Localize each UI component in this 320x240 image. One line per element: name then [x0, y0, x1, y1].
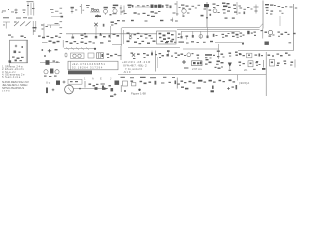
rectifier V7 — [265, 4, 276, 15]
bleeder lead — [279, 16, 281, 26]
parts list block2 r1 — [2, 80, 29, 84]
power transformer T6 — [97, 53, 104, 59]
text values row — [181, 41, 213, 44]
svg-text:A: A — [92, 77, 94, 81]
tube V3 shield — [151, 5, 164, 8]
cap C17 — [229, 53, 232, 57]
bias resistor — [205, 54, 215, 56]
tone cap — [175, 53, 180, 59]
coil L1 — [90, 8, 100, 12]
parts list block2 r4 — [2, 90, 10, 93]
mixer components — [127, 33, 143, 40]
B+ feed wire — [215, 42, 242, 44]
power bus wire — [262, 1, 264, 29]
parts list block2 r2 — [2, 83, 28, 87]
meter M1 — [205, 57, 212, 64]
bottom row right1 — [181, 80, 236, 84]
band switch row — [38, 36, 61, 39]
IF can T4 — [121, 28, 123, 46]
capacitor C2 — [71, 7, 78, 14]
resistor R16 — [151, 51, 157, 56]
notes text block r4 — [123, 70, 131, 74]
box K1 — [88, 53, 94, 58]
coupling network — [213, 4, 220, 14]
terminal id row — [121, 77, 176, 78]
cap C16 — [159, 53, 164, 58]
primary winding — [15, 45, 23, 48]
IF components lower — [131, 53, 149, 60]
resistor network R4 — [121, 12, 150, 17]
output tube V9 — [239, 54, 245, 57]
resistor R14 — [65, 53, 67, 58]
resistor R3 — [86, 5, 90, 8]
caption — [131, 91, 146, 95]
ground — [95, 14, 101, 17]
AF bus — [183, 44, 219, 59]
wire — [135, 5, 150, 7]
lever Z — [46, 88, 54, 94]
voice coil wire — [74, 87, 109, 90]
capacitor C5 — [173, 13, 179, 15]
oscillator can box — [157, 31, 177, 44]
label text rows — [72, 62, 105, 66]
mixer crossover — [94, 23, 98, 34]
svg-text:[-93-5] A: [-93-5] A — [239, 81, 249, 85]
junction — [110, 14, 112, 15]
capacitor C8 — [103, 24, 105, 27]
pilot lamp circuit — [40, 60, 60, 65]
terminal strip J1 labels — [2, 9, 15, 14]
notes text block r3 — [125, 67, 142, 71]
rectifier stack — [216, 61, 224, 65]
dash row — [184, 67, 223, 72]
wire — [80, 4, 84, 14]
parts list row1 — [2, 64, 23, 68]
terminal ticks — [60, 8, 63, 14]
coupling — [217, 51, 225, 58]
solder lugs — [3, 17, 32, 18]
filter caps — [278, 6, 288, 14]
wire — [112, 44, 122, 46]
phase cross — [182, 60, 186, 64]
antenna input — [3, 22, 10, 29]
svg-text:5 2 . 1 8 2 6 4 . 3 1 7 2 9 4: 5 2 . 1 8 2 6 4 . 3 1 7 2 9 4 — [72, 66, 103, 70]
parts list block2 r3 — [2, 86, 24, 90]
screen resistor R9 — [181, 31, 183, 38]
resistor R8 — [109, 34, 120, 39]
B+ bus line 3 — [181, 30, 240, 32]
resistor R11 — [207, 27, 209, 38]
junction dots — [183, 14, 212, 17]
AF plate wire — [128, 47, 180, 49]
first AF stage — [63, 40, 78, 48]
capacitor C4 — [166, 5, 172, 9]
choke L2 — [151, 11, 161, 17]
resistor R13 — [81, 41, 95, 44]
tone control — [42, 41, 60, 44]
output comps — [268, 53, 291, 57]
pin 1 — [84, 81, 86, 88]
bottom panel wire — [118, 74, 266, 76]
relay box — [192, 61, 203, 66]
component row bottom — [123, 81, 180, 92]
resistor R17 — [167, 50, 174, 56]
transformer terminals — [12, 57, 24, 62]
value row right — [244, 68, 265, 72]
terminal ticks — [60, 21, 63, 34]
volume control R12 — [222, 33, 230, 38]
capacitor C3 — [128, 5, 134, 8]
cathode resistor R6 — [72, 34, 75, 39]
wire — [47, 23, 60, 28]
output bus — [238, 49, 294, 51]
svg-text:c s e-a: c s e-a — [2, 90, 10, 93]
diode D1 — [228, 63, 232, 71]
detector row — [240, 7, 253, 14]
svg-text:+9.2 - 4 7 2 1 0 4 6 3 8 5 1: +9.2 - 4 7 2 1 0 4 6 3 8 5 1 — [72, 62, 105, 66]
left edge pin — [176, 78, 178, 89]
chart footnote — [84, 77, 112, 81]
oscillator coil L3 — [41, 24, 48, 39]
dial lamp — [8, 35, 26, 39]
svg-text:2.67 cm.: 2.67 cm. — [192, 67, 203, 71]
tube V6 — [222, 3, 231, 14]
dial mechanism — [44, 69, 59, 78]
resistor R5 — [192, 5, 201, 9]
electrolytic C13 — [278, 32, 296, 37]
oscillator V8 — [110, 20, 120, 34]
connector box — [68, 79, 82, 84]
field coil wire — [265, 52, 267, 96]
cap C14 — [100, 41, 111, 44]
transformer bottom lead — [9, 60, 12, 66]
capacitor C10 — [145, 34, 153, 39]
wire — [175, 1, 181, 16]
B+ dropping resistors — [225, 18, 235, 19]
resistor R1 — [15, 9, 18, 15]
decoupling C11 — [186, 36, 189, 40]
contact row — [89, 84, 105, 87]
neon mark — [242, 42, 291, 45]
transformer T1 — [27, 1, 35, 15]
bottom connector strip — [115, 81, 127, 93]
heater sawtooth — [64, 47, 96, 50]
svg-text:U c: U c — [46, 81, 51, 85]
cap C12 — [213, 34, 218, 37]
plug P1 — [102, 85, 116, 97]
cross X2 — [63, 81, 66, 84]
capacitor C1 — [23, 10, 26, 13]
tube V1 — [104, 7, 108, 15]
junction dot — [84, 33, 101, 35]
tube V2 — [113, 5, 119, 15]
B+ bus line 2 — [177, 28, 260, 30]
bypass capacitor C9 — [81, 35, 88, 40]
speaker SP1 — [65, 85, 74, 94]
bus corner — [260, 24, 264, 28]
svg-text:XY% 48 7. -90L- 2: XY% 48 7. -90L- 2 — [123, 64, 147, 68]
resistor R15 — [107, 54, 113, 59]
padder trimmer — [178, 34, 181, 39]
AF grid comps — [181, 53, 200, 59]
svg-text:E: E — [100, 77, 102, 81]
transformer T3 — [233, 2, 241, 15]
resistor R7 — [95, 34, 106, 39]
secondary winding — [14, 51, 21, 54]
switch S1 — [41, 49, 57, 57]
rectifier cathode — [247, 31, 256, 36]
svg-text:-N 1 9: -N 1 9 — [123, 70, 131, 74]
terminal row right — [239, 60, 296, 68]
wire stub — [237, 75, 239, 81]
bottom row right2 — [181, 85, 237, 92]
resistor R18 — [235, 52, 241, 56]
shaft line — [120, 46, 122, 60]
tube V5 — [204, 2, 212, 27]
B+ bus line 1 — [177, 26, 260, 28]
capacitor C6 — [254, 5, 259, 14]
svg-text:5. S-am .4 c1 a: 5. S-am .4 c1 a — [2, 75, 21, 79]
resistor R10 — [192, 31, 194, 37]
tube heater phi — [199, 31, 203, 38]
variable capacitor C7 — [14, 22, 31, 27]
output transformer T5 — [232, 32, 239, 38]
grid caps — [122, 18, 178, 23]
speaker terminals — [255, 54, 264, 57]
parts list row2 — [2, 67, 24, 71]
IF can lead wire — [155, 51, 157, 72]
notes text block r2 — [123, 64, 147, 68]
svg-text:a .: a . — [2, 11, 5, 14]
svg-text:20.: 20. — [244, 68, 248, 72]
resistor R2 — [50, 9, 58, 13]
parts list row3 — [2, 70, 16, 74]
cap C15 — [115, 54, 122, 56]
socket box — [247, 53, 252, 58]
notes text block r1 — [122, 60, 150, 64]
AVC wire — [122, 27, 177, 29]
IF transformer T2 — [120, 5, 125, 15]
can with tubes — [71, 53, 85, 58]
speaker field coil — [240, 33, 245, 37]
extra right cluster — [256, 61, 292, 66]
parts list row4 — [2, 73, 25, 77]
power transformer box — [10, 40, 28, 63]
svg-text:Figure 1-98: Figure 1-98 — [131, 91, 146, 95]
switch contacts — [46, 81, 60, 85]
gang tuning shaft — [33, 21, 37, 35]
filter choke — [261, 29, 275, 39]
label text row 2 — [72, 66, 103, 70]
right border wire — [290, 4, 298, 50]
chassis label box — [68, 61, 118, 70]
parts list row5 — [2, 75, 21, 79]
main grid wire — [66, 33, 157, 35]
amplifier stage V4 — [181, 5, 191, 18]
bottom right text — [239, 81, 249, 85]
voltage chart — [68, 71, 92, 75]
ant lead-in wire — [51, 16, 63, 18]
components above wire — [127, 41, 182, 45]
